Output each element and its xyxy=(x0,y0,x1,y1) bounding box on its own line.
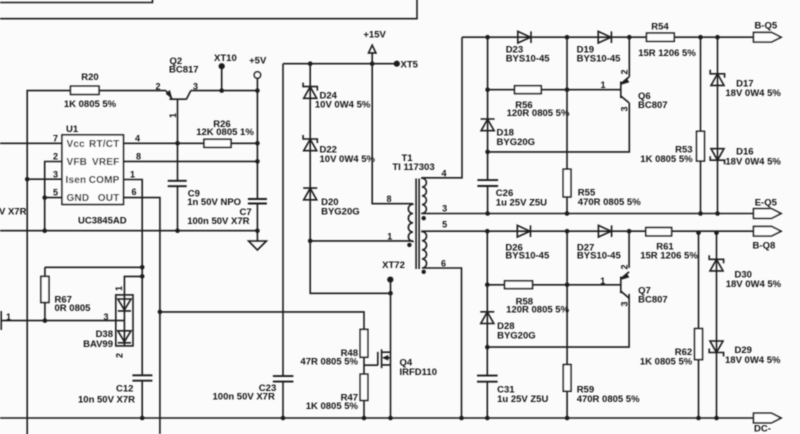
svg-text:18V 0W4 5%: 18V 0W4 5% xyxy=(725,355,781,366)
zener D24 xyxy=(303,83,317,99)
label XT10 xyxy=(214,53,237,64)
label R26 xyxy=(196,119,254,138)
diode D26 xyxy=(517,225,530,237)
transistor Q7 xyxy=(621,272,630,298)
resistor R59 xyxy=(563,365,571,392)
svg-text:4: 4 xyxy=(135,133,140,143)
svg-text:OUT: OUT xyxy=(98,193,120,204)
svg-text:B-Q8: B-Q8 xyxy=(753,241,776,252)
svg-text:3: 3 xyxy=(620,301,630,306)
svg-text:5: 5 xyxy=(442,220,447,230)
svg-text:XT72: XT72 xyxy=(382,260,405,271)
transformer T1 core xyxy=(416,179,419,270)
resistor R26 xyxy=(204,139,231,147)
label Q2 xyxy=(169,56,199,76)
wire Q6 collector xyxy=(628,37,630,77)
svg-text:BYG20G: BYG20G xyxy=(497,137,536,148)
label R67 xyxy=(55,295,92,315)
wire +15V row xyxy=(283,53,397,64)
svg-text:3: 3 xyxy=(103,312,108,322)
svg-text:3: 3 xyxy=(193,81,198,91)
transistor Q4 IRFD110 xyxy=(378,349,391,368)
svg-text:2: 2 xyxy=(620,69,630,74)
label R53 xyxy=(640,145,693,166)
svg-text:BYS10-45: BYS10-45 xyxy=(505,251,550,262)
svg-text:6: 6 xyxy=(132,187,137,197)
svg-text:18V 0W4 5%: 18V 0W4 5% xyxy=(725,156,781,167)
label R58 xyxy=(506,297,569,316)
label D27 xyxy=(577,242,622,261)
svg-text:2: 2 xyxy=(115,353,125,358)
wire B-Q5 row xyxy=(462,36,754,38)
resistor R20 xyxy=(71,86,100,94)
label XT72 xyxy=(382,260,405,271)
label Q7 xyxy=(638,286,668,306)
pin 4 of U1 xyxy=(135,133,140,143)
label Q6 xyxy=(638,91,668,111)
wire C23 vertical xyxy=(282,64,284,418)
svg-text:1: 1 xyxy=(600,276,605,286)
zener D16 xyxy=(710,149,724,165)
svg-text:2: 2 xyxy=(53,151,58,161)
svg-text:B-Q5: B-Q5 xyxy=(754,21,777,32)
svg-text:XT10: XT10 xyxy=(214,53,237,64)
label DC- xyxy=(754,424,771,434)
label R56 xyxy=(507,100,570,119)
svg-text:120R 0805 5%: 120R 0805 5% xyxy=(506,305,569,316)
label D24 xyxy=(315,91,371,111)
svg-text:1u 25V Z5U: 1u 25V Z5U xyxy=(497,394,548,405)
label C23 xyxy=(213,383,277,403)
label V X7R partial xyxy=(0,207,27,218)
svg-text:1: 1 xyxy=(6,312,11,322)
zener D22 xyxy=(303,135,317,151)
svg-text:IRFD110: IRFD110 xyxy=(400,367,438,378)
transformer T1 phase dots xyxy=(407,216,426,274)
label R48 xyxy=(300,348,358,368)
svg-text:BC817: BC817 xyxy=(169,65,199,76)
op-amp U1 UC3845AD box xyxy=(62,135,123,205)
label R47 xyxy=(306,393,359,413)
terminal +5V circle xyxy=(254,72,260,78)
svg-text:100n 50V X7R: 100n 50V X7R xyxy=(213,392,275,403)
diode D38 BAV99 xyxy=(116,295,133,346)
wire R56 row xyxy=(488,89,621,91)
power +15V arrow xyxy=(369,45,376,53)
label UC3845AD xyxy=(78,216,127,227)
pin 1 of Q7 xyxy=(600,276,605,286)
svg-text:120R 0805 5%: 120R 0805 5% xyxy=(507,108,570,119)
svg-text:8: 8 xyxy=(386,194,391,204)
capacitor C12 xyxy=(132,375,152,380)
svg-text:1K 0805 5%: 1K 0805 5% xyxy=(640,356,693,367)
label D19 xyxy=(577,45,622,65)
diode D18 xyxy=(481,119,495,131)
wire D30 D29 column xyxy=(716,233,718,418)
connector flag DC- xyxy=(754,413,782,423)
wire R20 to Q2 emitter xyxy=(99,90,166,92)
svg-text:UC3845AD: UC3845AD xyxy=(78,216,127,227)
pin 1 of D38 xyxy=(114,286,124,291)
diode D28 xyxy=(480,312,494,324)
zener D30 xyxy=(709,255,723,271)
ground symbol xyxy=(249,241,267,250)
wire Q2 base to C9 xyxy=(177,99,179,231)
svg-text:15R 1206 5%: 15R 1206 5% xyxy=(638,48,696,59)
wire R67 top loop xyxy=(45,267,142,320)
wire +5V vertical xyxy=(256,78,258,241)
wire +15V to T1 pin8 xyxy=(372,64,413,204)
svg-text:Vcc: Vcc xyxy=(67,139,86,150)
svg-text:3: 3 xyxy=(620,106,630,111)
svg-text:0R 0805: 0R 0805 xyxy=(55,303,92,314)
wire R20 left to bus xyxy=(27,91,70,434)
svg-text:12K 0805 1%: 12K 0805 1% xyxy=(196,127,254,138)
wire OUT to gate divider xyxy=(160,312,378,418)
label E-Q5 xyxy=(755,198,778,209)
wire D38 pin1 xyxy=(124,276,142,295)
pin 3 of T1 xyxy=(442,204,447,214)
label T1 xyxy=(392,153,434,173)
pin 6 of T1 xyxy=(441,259,446,269)
svg-text:2: 2 xyxy=(620,264,630,269)
svg-text:R20: R20 xyxy=(81,72,98,83)
wire pin2 loop xyxy=(45,162,62,231)
diode D23 xyxy=(518,31,531,43)
wire Q7 emitter return xyxy=(487,294,629,347)
label D23 xyxy=(506,45,551,65)
wire D18 C26 column xyxy=(487,37,489,213)
label D20 xyxy=(321,197,360,218)
svg-text:BYG20G: BYG20G xyxy=(497,331,536,342)
wire T1 pin1 xyxy=(310,240,413,242)
resistor R55 xyxy=(563,169,571,197)
resistor R56 xyxy=(515,86,542,94)
svg-text:1: 1 xyxy=(600,80,605,90)
svg-text:5: 5 xyxy=(53,188,58,198)
capacitor C26 xyxy=(477,180,498,186)
svg-text:RT/CT: RT/CT xyxy=(89,139,119,150)
wire T1 pin6 drop xyxy=(429,268,462,418)
wire Q2 collector to +5V xyxy=(191,90,258,92)
svg-text:4: 4 xyxy=(441,169,446,179)
svg-text:Isen: Isen xyxy=(66,175,87,186)
label D30 xyxy=(726,269,782,289)
wire zener chain vertical xyxy=(310,64,390,294)
pin 2 of D38 xyxy=(115,353,125,358)
svg-text:R54: R54 xyxy=(651,22,669,33)
svg-text:2: 2 xyxy=(155,81,160,91)
wire Q7 collector xyxy=(628,231,630,268)
pin 1 left connector xyxy=(6,312,11,322)
svg-text:470R 0805 5%: 470R 0805 5% xyxy=(577,394,640,405)
svg-text:1u 25V Z5U: 1u 25V Z5U xyxy=(496,197,547,208)
wire Q6 emitter return xyxy=(488,103,630,152)
wire frame outer box xyxy=(0,0,417,19)
wire D28 C31 column xyxy=(486,231,488,418)
svg-text:BYG20G: BYG20G xyxy=(321,207,360,218)
zener D29 xyxy=(709,341,723,357)
wire XT72 Q4 drain xyxy=(390,280,392,418)
connector flag B-Q5 xyxy=(754,32,782,42)
wire pin4 R26 row xyxy=(123,142,257,144)
label U1 xyxy=(66,124,79,135)
pin 2 of Q7 xyxy=(620,264,630,269)
svg-text:BYS10-45: BYS10-45 xyxy=(506,54,551,65)
label C26 xyxy=(496,188,547,208)
svg-text:GND: GND xyxy=(67,193,90,204)
wire T1 pin4 riser xyxy=(429,37,462,178)
op-amp U1 inner labels xyxy=(66,139,120,204)
pin 3 of Q7 xyxy=(620,301,630,306)
svg-text:18V 0W4 5%: 18V 0W4 5% xyxy=(725,88,781,99)
svg-text:1K 0805 5%: 1K 0805 5% xyxy=(306,401,359,412)
pin 3 of Q6 xyxy=(620,106,630,111)
label R20 xyxy=(64,72,117,110)
label B-Q8 xyxy=(753,241,776,252)
svg-text:15R 1206 5%: 15R 1206 5% xyxy=(640,251,698,262)
label D16 xyxy=(725,147,781,168)
label D38 xyxy=(83,329,113,350)
pin 8 of T1 xyxy=(386,194,391,204)
terminal XT72 xyxy=(387,277,393,283)
resistor R58 xyxy=(505,281,533,289)
svg-text:BC807: BC807 xyxy=(638,294,668,305)
svg-text:BYS10-45: BYS10-45 xyxy=(577,251,622,262)
resistor R61 xyxy=(646,228,672,236)
pin 1 of Q2 xyxy=(168,113,178,118)
connector stub left edge xyxy=(0,311,2,330)
label D28 xyxy=(497,321,536,342)
label R61 xyxy=(640,242,698,262)
svg-text:V X7R: V X7R xyxy=(0,207,27,218)
svg-text:+5V: +5V xyxy=(249,55,267,66)
wire feedback row xyxy=(0,230,257,232)
terminal XT5 xyxy=(394,61,400,67)
capacitor C23 xyxy=(273,376,294,382)
resistor R48 xyxy=(360,329,368,357)
svg-text:100n 50V X7R: 100n 50V X7R xyxy=(187,216,249,227)
svg-text:1n 50V NPO: 1n 50V NPO xyxy=(187,197,241,208)
svg-text:BC807: BC807 xyxy=(638,100,668,111)
svg-text:C12: C12 xyxy=(116,384,133,395)
svg-text:8: 8 xyxy=(136,151,141,161)
label D17 xyxy=(725,78,781,99)
wire pin6 OUT vertical xyxy=(123,198,159,434)
resistor R47 xyxy=(360,374,368,400)
svg-text:18V 0W4 5%: 18V 0W4 5% xyxy=(726,279,782,290)
svg-text:47R 0805 5%: 47R 0805 5% xyxy=(300,357,358,368)
wire frame inner box xyxy=(0,0,153,3)
svg-text:1K 0805 5%: 1K 0805 5% xyxy=(64,99,117,110)
label C12 xyxy=(78,384,135,406)
svg-text:BYS10-45: BYS10-45 xyxy=(577,54,622,65)
transformer T1 primary xyxy=(408,204,413,242)
label D22 xyxy=(320,145,376,165)
diode D19 xyxy=(598,31,611,43)
wire R62 column xyxy=(698,233,700,418)
label +15V xyxy=(363,30,386,41)
pin 7 of U1 xyxy=(53,133,58,143)
label R55 xyxy=(578,188,641,209)
svg-text:XT5: XT5 xyxy=(401,59,419,70)
transformer T1 secondary bottom xyxy=(422,231,430,268)
transistor Q2 xyxy=(166,90,191,99)
wire left connector to D38 xyxy=(2,320,124,322)
svg-text:3: 3 xyxy=(53,170,58,180)
connector flag E-Q5 xyxy=(754,209,782,219)
svg-text:6: 6 xyxy=(441,259,446,269)
resistor R67 xyxy=(41,276,49,302)
pin 8 of U1 xyxy=(136,151,141,161)
label D18 xyxy=(497,128,536,149)
diode D27 xyxy=(598,225,611,237)
label C7 xyxy=(187,207,251,227)
label Q4 xyxy=(400,358,438,379)
wire pin3 xyxy=(27,178,62,180)
terminal XT10 xyxy=(219,63,225,69)
pin 6 of U1 xyxy=(132,187,137,197)
wire pin1 COMP vertical xyxy=(123,180,142,419)
pin 3 of Q2 xyxy=(193,81,198,91)
svg-text:1: 1 xyxy=(130,170,135,180)
label R59 xyxy=(577,385,640,406)
svg-text:7: 7 xyxy=(53,133,58,143)
svg-text:1K 0805 5%: 1K 0805 5% xyxy=(640,154,693,165)
diode D20 xyxy=(303,188,317,200)
capacitor C7 xyxy=(248,199,267,204)
pin 3 of D38 xyxy=(103,312,108,322)
pin 1 of T1 xyxy=(387,232,392,242)
pin 1 of U1 xyxy=(130,170,135,180)
wire B-Q8 row xyxy=(429,230,754,232)
svg-text:BAV99: BAV99 xyxy=(83,339,113,350)
wire R53 column xyxy=(700,37,702,213)
svg-text:VREF: VREF xyxy=(92,157,119,168)
wire pin5 stub xyxy=(45,197,62,199)
label D29 xyxy=(725,345,781,366)
svg-text:+15V: +15V xyxy=(363,30,386,41)
svg-text:3: 3 xyxy=(442,204,447,214)
svg-text:10V 0W4 5%: 10V 0W4 5% xyxy=(320,154,376,165)
resistor R54 xyxy=(647,33,675,41)
svg-text:E-Q5: E-Q5 xyxy=(755,198,778,209)
pin 4 of T1 xyxy=(441,169,446,179)
svg-text:COMP: COMP xyxy=(89,175,120,186)
pin 1 of Q6 xyxy=(600,80,605,90)
wire D17 D16 column xyxy=(717,37,719,213)
capacitor C31 xyxy=(477,376,498,382)
wire E-Q5 row xyxy=(429,213,754,215)
label C31 xyxy=(497,385,548,406)
wire R58 row xyxy=(487,284,621,286)
capacitor C9 xyxy=(168,181,187,186)
pin 2 of Q6 xyxy=(620,69,630,74)
label R62 xyxy=(640,347,693,367)
pin 2 of Q2 xyxy=(155,81,160,91)
svg-text:470R 0805 5%: 470R 0805 5% xyxy=(578,197,641,208)
wire pin8 row xyxy=(123,160,257,162)
svg-text:DC-: DC- xyxy=(754,424,771,434)
svg-text:1: 1 xyxy=(114,286,124,291)
label C9 xyxy=(187,189,241,208)
zener D17 xyxy=(710,70,724,86)
label R54 xyxy=(638,22,696,60)
resistor R53 xyxy=(697,131,705,161)
resistor R62 xyxy=(695,329,703,360)
svg-text:1: 1 xyxy=(387,232,392,242)
pin 2 of U1 xyxy=(53,151,58,161)
label XT5 xyxy=(401,59,419,70)
wire R59 column xyxy=(566,231,568,418)
transistor Q6 xyxy=(621,77,630,103)
pin 5 of T1 xyxy=(442,220,447,230)
wire pin7 xyxy=(0,142,62,144)
connector flag B-Q8 xyxy=(754,226,782,236)
svg-text:VFB: VFB xyxy=(67,157,88,168)
pin 3 of U1 xyxy=(53,170,58,180)
label +5V xyxy=(249,55,267,66)
svg-text:10n 50V X7R: 10n 50V X7R xyxy=(78,395,135,406)
wire DC- rail xyxy=(0,417,754,419)
pin 5 of U1 xyxy=(53,188,58,198)
wire R55 column xyxy=(566,37,568,213)
svg-text:1: 1 xyxy=(168,113,178,118)
label B-Q5 xyxy=(754,21,777,32)
svg-text:TI 117303: TI 117303 xyxy=(392,162,434,173)
svg-text:U1: U1 xyxy=(66,124,79,135)
svg-text:10V 0W4 5%: 10V 0W4 5% xyxy=(315,100,371,111)
transformer T1 secondary top xyxy=(422,178,430,214)
label D26 xyxy=(505,242,550,261)
wire XT10 stub xyxy=(221,69,223,91)
